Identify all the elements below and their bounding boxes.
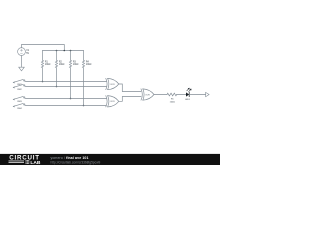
switch SW1 bbox=[13, 79, 25, 83]
resistor R2 bbox=[55, 51, 57, 87]
svg-text:LAB: LAB bbox=[30, 160, 41, 165]
wire V1 bottom to ground bbox=[21, 56, 23, 68]
switch SW3 bbox=[13, 96, 25, 100]
xor gate U2 bbox=[106, 96, 119, 107]
svg-text:XOR: XOR bbox=[110, 101, 115, 103]
svg-text:10kΩ: 10kΩ bbox=[86, 64, 92, 66]
label R4 10k bbox=[86, 61, 92, 66]
svg-text:100Ω: 100Ω bbox=[170, 101, 175, 103]
label R5 100 bbox=[170, 98, 175, 103]
svg-text:XOR: XOR bbox=[145, 94, 150, 96]
wire line A bbox=[25, 81, 106, 83]
wire line B bbox=[25, 86, 106, 88]
svg-text:LED1: LED1 bbox=[185, 99, 191, 101]
svg-text:yomero / final ave 101: yomero / final ave 101 bbox=[51, 156, 89, 160]
resistor R1 bbox=[41, 51, 43, 82]
resistor R3 bbox=[69, 51, 71, 99]
circuitlab logo bbox=[9, 155, 41, 166]
xor gate U3 bbox=[141, 89, 154, 100]
label R3 10k bbox=[73, 61, 79, 66]
led D1 bbox=[186, 88, 191, 97]
node R4-lineD bbox=[83, 105, 85, 107]
svg-text:5V: 5V bbox=[26, 53, 29, 55]
wire top rail bbox=[43, 50, 84, 52]
footer bar bbox=[0, 154, 220, 165]
wire U2 out to U3 bbox=[119, 97, 141, 102]
node rail-drop bbox=[64, 50, 66, 52]
node rail-R3 bbox=[70, 50, 72, 52]
node R1-lineA bbox=[42, 81, 44, 83]
wire U3 out to R5 bbox=[154, 94, 167, 96]
wire R5 to LED bbox=[177, 94, 186, 96]
svg-text:XOR: XOR bbox=[110, 84, 115, 86]
label R2 10k bbox=[59, 61, 65, 66]
voltage source V1 bbox=[18, 48, 26, 56]
wire U1 out to U3 bbox=[119, 84, 141, 92]
wire line D bbox=[25, 105, 106, 107]
node rail-R2 bbox=[56, 50, 58, 52]
wire LED to flag bbox=[189, 94, 205, 96]
svg-text:10kΩ: 10kΩ bbox=[59, 64, 65, 66]
label V1 5V bbox=[26, 50, 30, 55]
switch SW2 bbox=[13, 84, 25, 88]
output flag OUT bbox=[206, 92, 210, 96]
node R3-lineC bbox=[70, 98, 72, 100]
resistor R5 bbox=[167, 93, 176, 96]
resistor R4 bbox=[82, 51, 84, 106]
switch SW4 bbox=[13, 103, 25, 107]
svg-text:http://circuitlab.com/c/33b8tg: http://circuitlab.com/c/33b8tg5pcw9 bbox=[51, 160, 101, 164]
xor gate U1 bbox=[106, 78, 119, 89]
svg-text:10kΩ: 10kΩ bbox=[45, 64, 51, 66]
ground bbox=[19, 67, 25, 71]
wire V1 top to rail drop bbox=[22, 45, 65, 51]
credit text bbox=[51, 156, 101, 164]
svg-text:10kΩ: 10kΩ bbox=[73, 64, 79, 66]
label R1 10k bbox=[45, 61, 51, 66]
wire line C bbox=[25, 98, 106, 100]
node R2-lineB bbox=[56, 86, 58, 88]
